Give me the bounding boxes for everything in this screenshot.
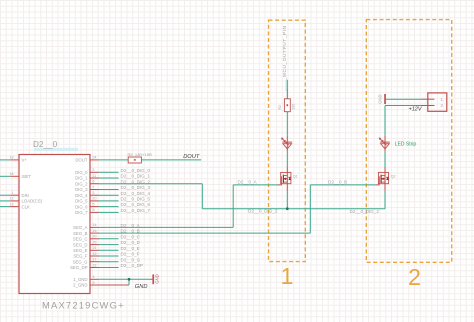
svg-text:19: 19 [10,156,14,160]
svg-text:D2__0_DIG_4: D2__0_DIG_4 [121,191,151,196]
svg-text:DIG_7: DIG_7 [75,210,88,215]
svg-text:DIG_2: DIG_2 [75,181,88,186]
svg-text:DOUT: DOUT [183,154,200,160]
svg-text:1_GND: 1_GND [73,277,87,282]
svg-text:21: 21 [93,246,97,250]
svg-text:GND: GND [377,94,382,103]
svg-text:LED Strip: LED Strip [395,142,417,148]
svg-text:GND: GND [155,274,160,283]
svg-text:DIN: DIN [22,193,29,198]
svg-text:SEG_C: SEG_C [73,237,88,242]
svg-text:18: 18 [10,172,14,176]
svg-text:16: 16 [93,229,97,233]
svg-text:D2__0_B: D2__0_B [328,180,347,185]
svg-text:_MCU_OUTPUT_PIN: _MCU_OUTPUT_PIN [282,25,288,81]
svg-text:2_GND: 2_GND [73,283,87,288]
svg-text:11: 11 [93,174,97,178]
svg-text:3: 3 [93,191,95,195]
svg-text:SEG_G: SEG_G [73,259,88,264]
svg-text:CLK: CLK [22,204,30,209]
svg-text:SEG_E: SEG_E [73,248,87,253]
svg-text:DIG_4: DIG_4 [75,193,88,198]
svg-text:R2: R2 [278,105,282,110]
svg-text:220: 220 [292,104,296,110]
svg-text:D2__0_DIG_3: D2__0_DIG_3 [121,185,151,190]
svg-text:D2__0_DIG_7: D2__0_DIG_7 [121,208,151,213]
svg-text:2: 2 [408,264,421,290]
svg-text:MAX7219CWG+: MAX7219CWG+ [42,300,125,311]
svg-text:D2__0_DIG_2: D2__0_DIG_2 [121,179,151,184]
svg-text:SEG_DP: SEG_DP [70,265,88,270]
svg-text:DIG_6: DIG_6 [75,204,88,209]
svg-text:DIG_0: DIG_0 [75,170,88,175]
svg-text:2: 2 [93,168,95,172]
svg-text:D2__0_DIG_2: D2__0_DIG_2 [350,209,380,214]
svg-text:D2__0: D2__0 [33,140,58,149]
svg-text:DIG_3: DIG_3 [75,187,88,192]
svg-text:DIG_1: DIG_1 [75,176,88,181]
svg-text:14: 14 [93,223,97,227]
svg-text:D2__0_G: D2__0_G [121,257,141,262]
svg-text:10: 10 [93,197,97,201]
svg-text:Q1: Q1 [293,175,298,179]
svg-text:17: 17 [93,258,97,262]
svg-text:13: 13 [10,202,14,206]
svg-text:D2__0_DIG_0: D2__0_DIG_0 [121,168,151,173]
svg-text:SEG_B: SEG_B [73,231,87,236]
svg-text:12: 12 [10,197,14,201]
svg-text:D2__0_A: D2__0_A [238,180,258,185]
svg-text:1: 1 [281,263,294,289]
svg-text:SEG_D: SEG_D [73,242,88,247]
svg-text:V+: V+ [22,158,28,163]
svg-text:23: 23 [93,240,97,244]
svg-text:ISET: ISET [22,174,32,179]
svg-text:1: 1 [12,191,14,195]
svg-text:22: 22 [93,263,97,267]
svg-text:20: 20 [93,235,97,239]
svg-text:SEG_A: SEG_A [73,225,87,230]
svg-text:DIG_5: DIG_5 [75,199,88,204]
svg-text:+12V: +12V [409,106,423,112]
svg-text:6: 6 [93,180,95,184]
svg-text:9: 9 [93,281,95,285]
svg-text:24: 24 [93,156,97,160]
svg-text:D2__0_E: D2__0_E [121,246,140,251]
svg-text:8: 8 [93,208,95,212]
svg-text:D2__0_D: D2__0_D [121,240,141,245]
svg-text:5: 5 [93,202,95,206]
svg-text:15: 15 [93,252,97,256]
svg-text:Q2: Q2 [391,175,396,179]
svg-text:D2__0_B: D2__0_B [121,229,140,234]
svg-text:D2__0_DP: D2__0_DP [121,263,143,268]
svg-text:D2__0_DIG_6: D2__0_DIG_6 [121,202,151,207]
svg-text:D2__0_C: D2__0_C [121,234,141,239]
svg-text:R5 14R+15R: R5 14R+15R [128,152,152,157]
svg-text:D2__0_A: D2__0_A [121,223,141,228]
svg-text:D2__0_DIG_1: D2__0_DIG_1 [121,174,151,179]
svg-text:DOUT: DOUT [75,158,88,163]
svg-text:SEG_F: SEG_F [73,254,87,259]
svg-text:LOAD(CS): LOAD(CS) [22,199,43,204]
svg-text:4: 4 [93,275,95,279]
svg-text:GND: GND [135,284,148,290]
svg-text:7: 7 [93,185,95,189]
svg-text:D2__0_F: D2__0_F [121,252,140,257]
svg-text:D2__0_DIG_5: D2__0_DIG_5 [121,197,151,202]
svg-text:D2__0_DIG_2: D2__0_DIG_2 [248,209,278,214]
